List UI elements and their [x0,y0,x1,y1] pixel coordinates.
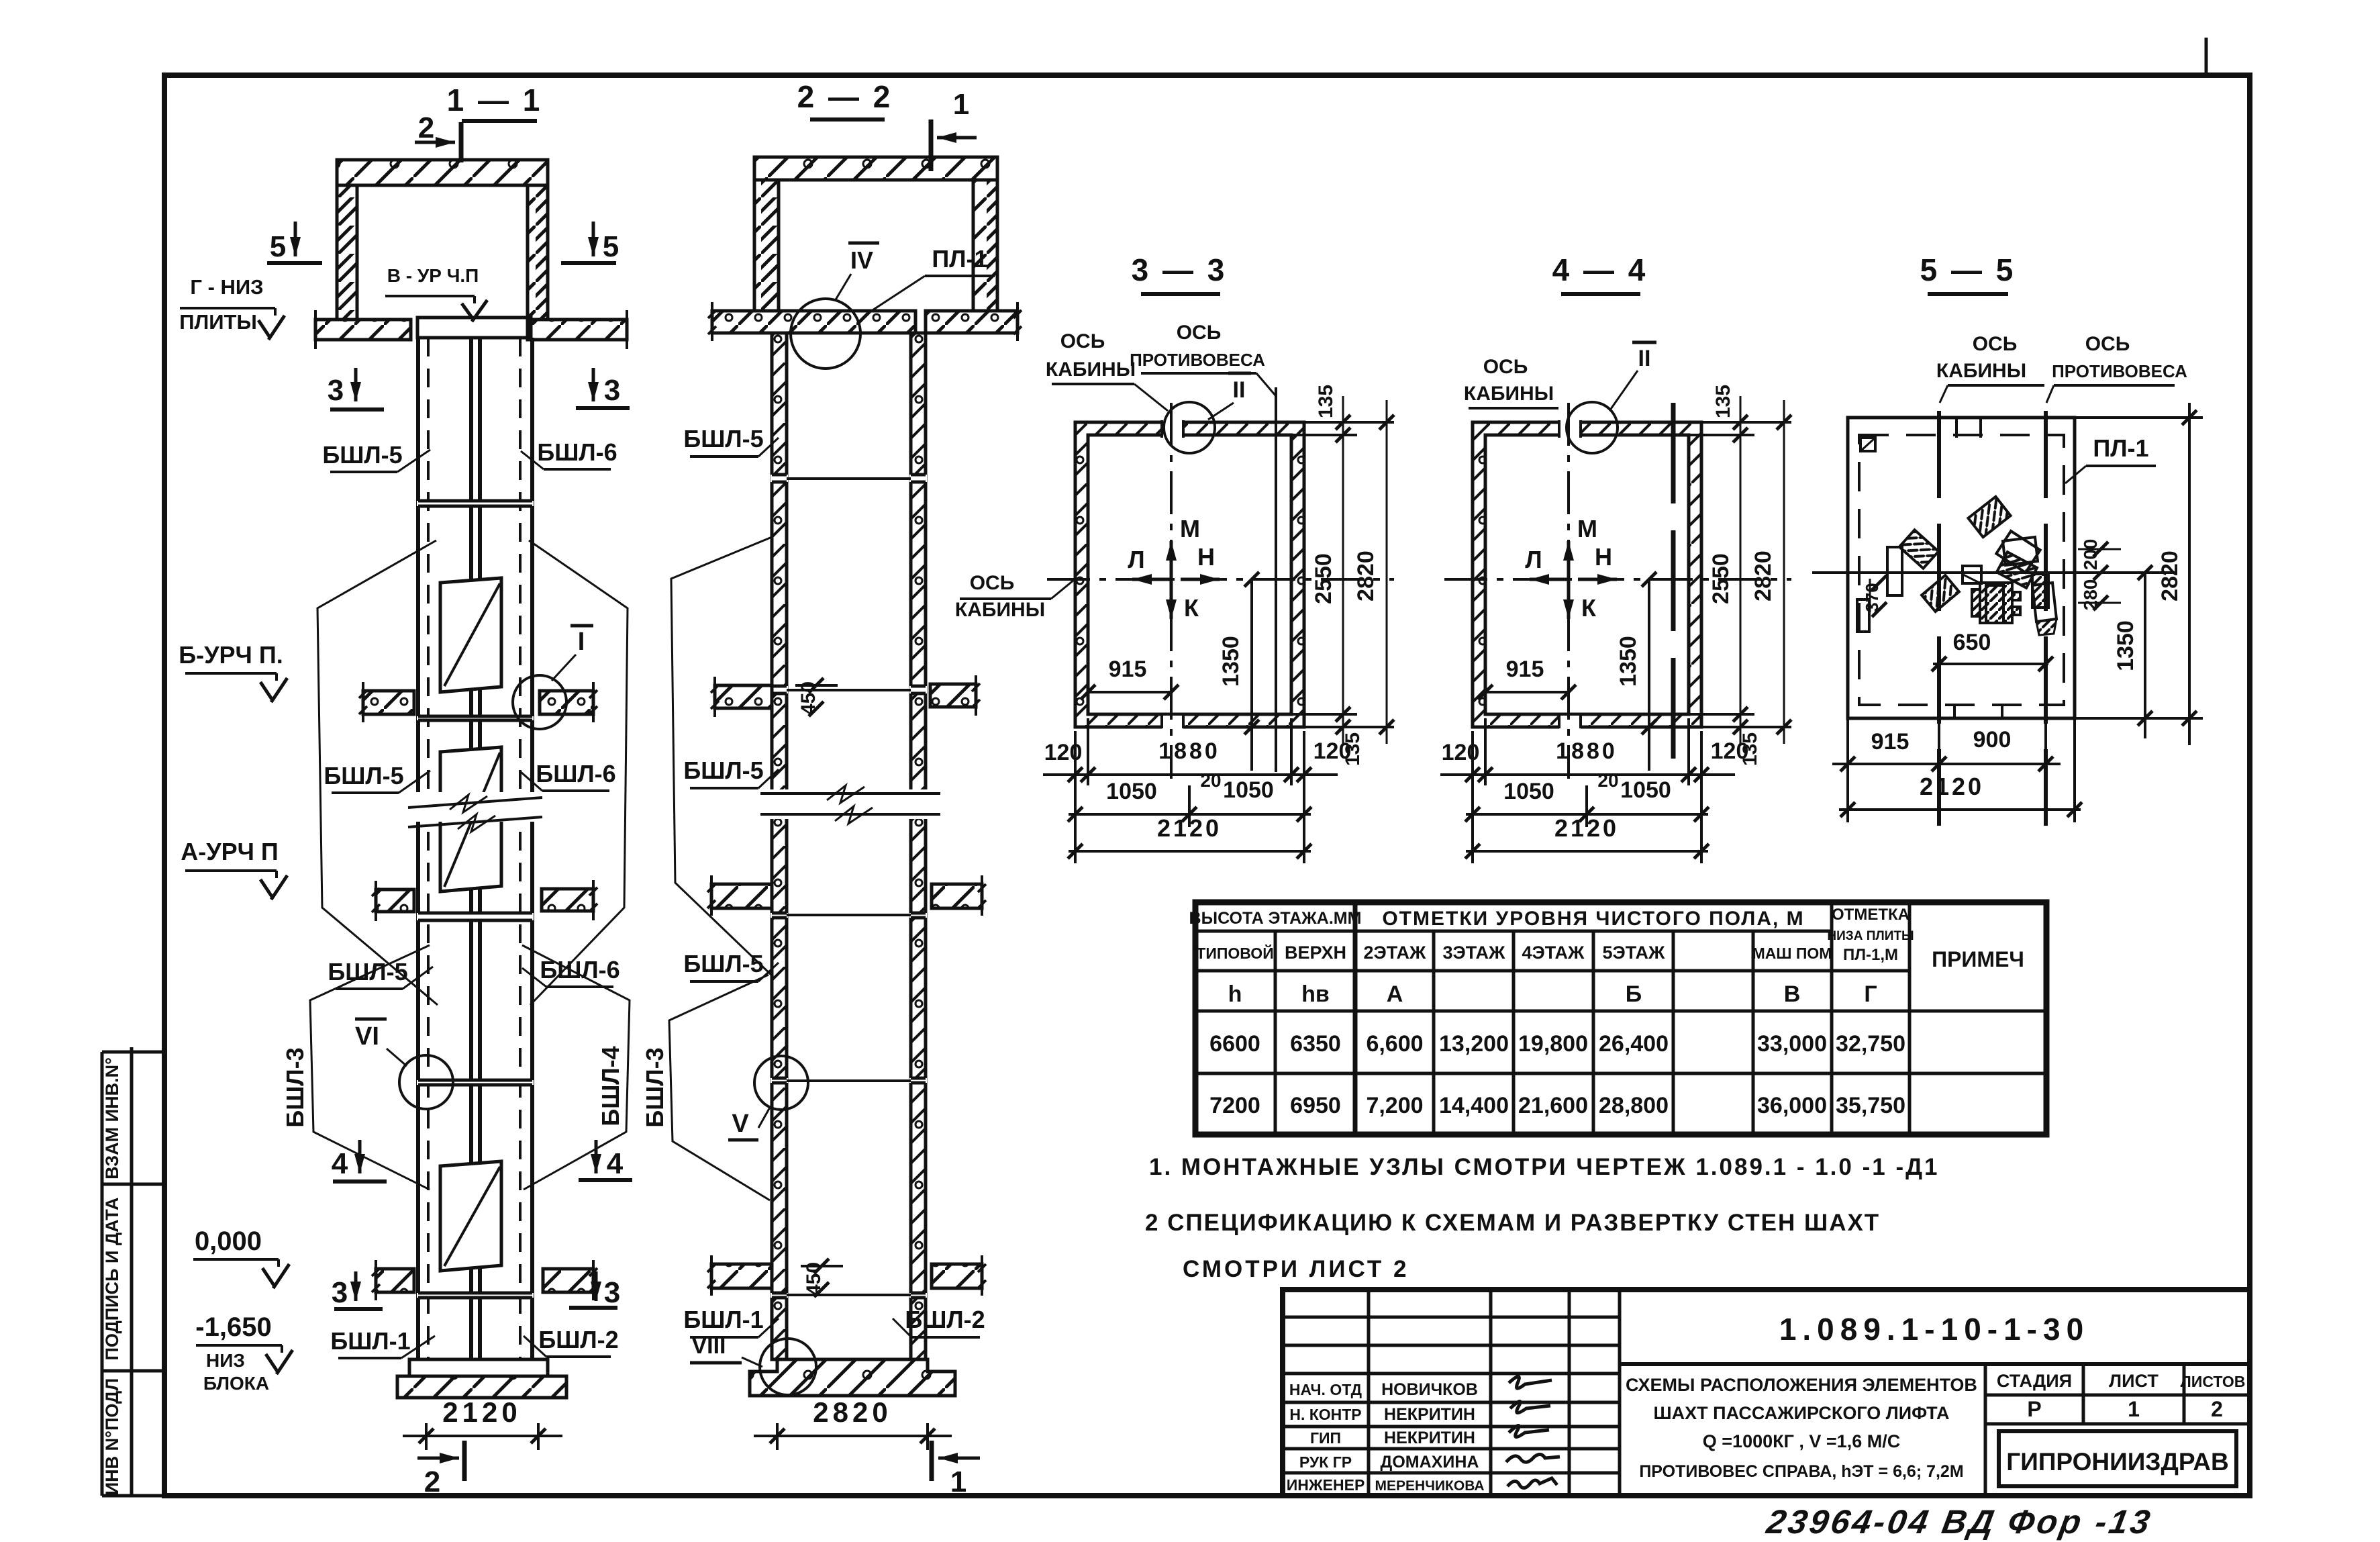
svg-text:ШАХТ ПАССАЖИРСКОГО ЛИФТА: ШАХТ ПАССАЖИРСКОГО ЛИФТА [1654,1403,1950,1423]
section 5-5 corner stop [1861,438,1875,451]
machine room floor plate PL-1 [417,318,531,338]
shaft 1-1 dashed block lines [427,338,430,1359]
svg-text:ВЕРХН: ВЕРХН [1285,943,1346,963]
section 3-3 horizontal axis [1047,578,1394,581]
section 3-3 axis arrows M L N K [1170,541,1173,579]
svg-text:2: 2 [2211,1397,2223,1421]
svg-text:1050: 1050 [1223,777,1274,803]
svg-text:ВЫСОТА ЭТАЖА.ММ: ВЫСОТА ЭТАЖА.ММ [1189,909,1362,928]
section 4-4 bottom joint gap [1559,716,1581,732]
section 5-5 dashed shaft outline PL-1 [1859,435,2064,705]
svg-text:Р: Р [2027,1397,2041,1421]
svg-text:БШЛ-5: БШЛ-5 [328,958,407,985]
svg-text:-1,650: -1,650 [195,1312,271,1342]
registration tick above frame [2205,38,2208,75]
section 3-3 right dims [1304,421,1394,424]
svg-text:М: М [1180,515,1200,542]
svg-text:2820: 2820 [813,1396,891,1428]
svg-text:21,600: 21,600 [1518,1093,1588,1118]
svg-text:1050: 1050 [1503,779,1554,804]
svg-text:915: 915 [1506,657,1544,682]
machine room 1-1 left wall [337,185,357,320]
svg-text:ОТМЕТКИ УРОВНЯ ЧИСТОГО ПОЛА, М: ОТМЕТКИ УРОВНЯ ЧИСТОГО ПОЛА, М [1382,908,1804,930]
svg-text:135: 135 [1315,385,1337,418]
section marker 4 right [595,1140,598,1173]
svg-text:ОСЬ: ОСЬ [1973,333,2018,355]
svg-text:СТАДИЯ: СТАДИЯ [1997,1371,2072,1391]
floor slabs 2-2 mid level [711,884,772,908]
svg-text:ЛИСТ: ЛИСТ [2109,1371,2159,1391]
svg-text:35,750: 35,750 [1836,1093,1905,1118]
svg-text:БШЛ-5: БШЛ-5 [324,762,403,789]
svg-text:2120: 2120 [1554,814,1619,842]
floor slabs 2-2 upper level [715,685,772,708]
svg-text:БШЛ-5: БШЛ-5 [683,757,763,784]
extent bracket upper left [317,540,438,1005]
svg-text:НЕКРИТИН: НЕКРИТИН [1384,1405,1475,1424]
svg-text:КАБИНЫ: КАБИНЫ [1464,383,1554,405]
door opening D2 [440,747,501,892]
svg-text:ПЛ-1: ПЛ-1 [2093,434,2148,462]
svg-text:915: 915 [1871,729,1910,755]
svg-text:СХЕМЫ РАСПОЛОЖЕНИЯ ЭЛЕМЕНТОВ: СХЕМЫ РАСПОЛОЖЕНИЯ ЭЛЕМЕНТОВ [1626,1375,1977,1395]
detail circle VI [399,1055,453,1109]
svg-text:Г: Г [1864,981,1877,1007]
svg-text:120: 120 [1313,738,1352,764]
floor slabs level B [363,691,414,714]
svg-text:ГИПРОНИИЗДРАВ: ГИПРОНИИЗДРАВ [2006,1448,2228,1476]
svg-text:К: К [1581,594,1597,622]
svg-text:ПЛИТЫ: ПЛИТЫ [179,310,257,334]
svg-text:II: II [1638,346,1651,371]
svg-text:НОВИЧКОВ: НОВИЧКОВ [1381,1380,1478,1399]
shaft 2-2 break [760,789,938,819]
svg-text:БШЛ-5: БШЛ-5 [683,425,763,452]
svg-text:2120: 2120 [1920,773,1984,800]
machine room 2-2 floor slab right part [926,311,1018,333]
svg-text:БШЛ-5: БШЛ-5 [683,950,763,977]
svg-text:1880: 1880 [1556,738,1618,764]
detail circle V [754,1056,808,1110]
svg-text:В: В [1784,981,1801,1007]
svg-text:IV: IV [850,246,873,274]
section 5-5 equipment motor [1972,583,2020,623]
svg-text:РУК ГР: РУК ГР [1299,1453,1352,1471]
svg-text:ОСЬ: ОСЬ [1483,356,1528,378]
svg-text:Н: Н [1595,543,1612,571]
detail circle VIII [760,1339,816,1395]
machine room 1-1 right wall [528,185,548,320]
svg-text:Л: Л [1525,546,1542,573]
svg-text:ПЛ-1: ПЛ-1 [932,245,987,273]
interior storey lines 2-2 [787,477,911,480]
machine room 1-1 top slab [337,160,548,185]
base plates of shaft 1-1 [409,1359,548,1376]
left margin strip boxes [101,1052,104,1496]
svg-text:НАЧ. ОТД: НАЧ. ОТД [1289,1381,1362,1398]
svg-text:4ЭТАЖ: 4ЭТАЖ [1522,943,1585,963]
section 4-4 walls [1473,422,1701,727]
section 4-4 horizontal axis [1444,578,1791,581]
svg-text:5: 5 [270,230,286,263]
section marker 3 right [592,368,595,401]
svg-text:В - УР Ч.П: В - УР Ч.П [387,265,479,286]
section 5-5 bottom notch [1953,704,1956,718]
svg-text:II: II [1233,377,1246,403]
svg-text:20: 20 [1597,770,1618,791]
section marker 1 bottom [930,1441,934,1481]
svg-text:КАБИНЫ: КАБИНЫ [1046,358,1136,381]
svg-text:7200: 7200 [1209,1093,1260,1118]
svg-text:МАШ ПОМ: МАШ ПОМ [1752,945,1832,962]
svg-text:БШЛ-6: БШЛ-6 [537,438,617,466]
svg-text:6,600: 6,600 [1366,1031,1423,1057]
svg-text:ГИП: ГИП [1310,1429,1341,1447]
svg-text:ИНЖЕНЕР: ИНЖЕНЕР [1287,1476,1365,1494]
svg-text:14,400: 14,400 [1439,1093,1509,1118]
svg-text:3: 3 [604,1276,620,1309]
svg-text:1050: 1050 [1620,777,1671,803]
shaft 2-2 storey joints [771,475,788,482]
svg-text:ПРОТИВОВЕСА: ПРОТИВОВЕСА [1130,350,1265,370]
machine room 2-2 floor slab left part [712,311,915,333]
shaft 1-1 right column wall lines [478,338,482,1359]
svg-text:26,400: 26,400 [1599,1031,1669,1057]
svg-text:120: 120 [1044,740,1083,765]
section 3-3 detail circle II [1164,402,1215,453]
section 4-4 dim 915 [1485,691,1569,693]
floor slabs 2-2 low level [711,1264,772,1288]
svg-text:4: 4 [332,1147,348,1180]
svg-text:900: 900 [1973,727,2012,753]
svg-text:7,200: 7,200 [1366,1093,1423,1118]
title block signatures scribbles [1506,1376,1560,1488]
extent bracket upper right [529,540,628,1005]
section marker 3 bottom right [595,1271,598,1301]
shaft 2-2 left wall [772,333,787,1359]
door opening D3 [440,1161,501,1271]
svg-text:ОСЬ: ОСЬ [1177,322,1222,344]
section 5-5 bottom dims [1846,718,1849,822]
section 5-5 equipment blocks [1968,497,2010,537]
section 5-5 machine room plan outline [1848,418,2075,718]
title block signature rows [1283,1316,1620,1319]
section 5-5 horizontal axis [1812,571,2175,574]
svg-text:КАБИНЫ: КАБИНЫ [955,599,1045,621]
svg-text:V: V [732,1110,749,1138]
shaft 1-1 break [407,792,544,822]
svg-text:VI: VI [355,1022,379,1051]
section 4-4 axis arrows M L N K [1567,541,1571,579]
svg-text:h: h [1228,981,1242,1007]
svg-text:120: 120 [1442,740,1480,765]
svg-text:Q =1000КГ , V =1,6 М/С: Q =1000КГ , V =1,6 М/С [1703,1431,1900,1451]
svg-text:БШЛ-3: БШЛ-3 [281,1047,309,1127]
svg-text:КАБИНЫ: КАБИНЫ [1936,360,2026,382]
svg-text:ТИПОВОЙ: ТИПОВОЙ [1196,944,1273,962]
section 5-5 cabin axis [1937,411,1941,826]
detail circle IV [791,299,860,369]
dimension 2820 view 2-2 [776,1423,779,1450]
svg-text:1: 1 [953,88,969,121]
shaft 1-1 left column wall lines [416,338,420,1359]
svg-text:ОТМЕТКА: ОТМЕТКА [1832,906,1910,924]
svg-text:2: 2 [418,111,434,144]
machine room floor left slab [315,320,411,340]
svg-text:3 — 3: 3 — 3 [1132,252,1228,287]
title block outer [1283,1290,2250,1496]
svg-text:28,800: 28,800 [1599,1093,1669,1118]
svg-text:1050: 1050 [1106,779,1157,804]
extent bracket lower left with BShL-3 [310,945,430,1190]
section 4-4 dim 1350 [1648,579,1650,771]
svg-text:1350: 1350 [2113,620,2138,671]
svg-text:НИЗА ПЛИТЫ: НИЗА ПЛИТЫ [1827,929,1914,943]
svg-text:0,000: 0,000 [195,1226,262,1256]
svg-text:5 — 5: 5 — 5 [1920,252,2016,287]
section 4-4 detail circle II [1567,402,1618,453]
machine room 2-2 left wall [754,180,779,311]
section 3-3 bottom dims [1054,727,1075,866]
svg-text:hв: hв [1301,981,1330,1007]
section 3-3 walls [1075,422,1304,727]
machine room floor right slab [528,320,627,340]
svg-text:3ЭТАЖ: 3ЭТАЖ [1443,943,1506,963]
svg-text:32,750: 32,750 [1836,1031,1905,1057]
svg-text:6950: 6950 [1290,1093,1341,1118]
svg-text:4 — 4: 4 — 4 [1552,252,1648,287]
svg-text:Б: Б [1626,981,1642,1007]
svg-text:19,800: 19,800 [1518,1031,1588,1057]
section 5-5 dim 650 [1933,663,2048,665]
svg-text:5: 5 [603,230,619,263]
machine room 2-2 top slab [754,157,997,180]
foundation slab 1-1 [397,1376,566,1398]
svg-text:НЕКРИТИН: НЕКРИТИН [1384,1429,1475,1447]
svg-text:М: М [1577,515,1597,542]
svg-text:915: 915 [1109,657,1147,682]
section 5-5 counterweight axis [2044,411,2048,826]
svg-text:650: 650 [1953,630,1991,655]
svg-text:ПРОТИВОВЕСА: ПРОТИВОВЕСА [2052,361,2187,381]
svg-text:БШЛ-1: БШЛ-1 [683,1306,763,1333]
section 4-4 top joint gap [1559,420,1581,438]
svg-text:БШЛ-4: БШЛ-4 [597,1046,624,1126]
svg-text:2550: 2550 [1311,553,1336,604]
svg-text:СМОТРИ ЛИСТ 2: СМОТРИ ЛИСТ 2 [1183,1256,1409,1282]
section 4-4 counterweight axis [1671,403,1676,779]
svg-text:ЛИСТОВ: ЛИСТОВ [2181,1373,2246,1390]
svg-text:БШЛ-5: БШЛ-5 [322,441,402,469]
svg-text:6350: 6350 [1290,1031,1341,1057]
title block signature columns [1367,1290,1371,1496]
floor slabs level 0 [376,1269,414,1292]
svg-text:1: 1 [950,1465,966,1498]
extent bracket 2-2 left lower with BShL-3 [669,975,770,1200]
svg-text:Г - НИЗ: Г - НИЗ [190,275,263,299]
svg-text:ОСЬ: ОСЬ [1060,330,1105,352]
svg-text:13,200: 13,200 [1439,1031,1509,1057]
svg-text:4: 4 [607,1147,624,1180]
shaft 1-1 storey joints [417,501,534,506]
svg-text:БШЛ-1: БШЛ-1 [330,1327,410,1355]
svg-text:2120: 2120 [442,1396,521,1428]
svg-text:ПОДПИСЬ И ДАТА: ПОДПИСЬ И ДАТА [102,1197,122,1360]
svg-text:БШЛ-2: БШЛ-2 [905,1306,985,1333]
svg-text:6600: 6600 [1209,1031,1260,1057]
svg-text:36,000: 36,000 [1757,1093,1827,1118]
section marker 5 right [592,222,595,256]
svg-text:ДОМАХИНА: ДОМАХИНА [1381,1453,1479,1472]
svg-text:1350: 1350 [1616,636,1641,687]
svg-text:БШЛ-3: БШЛ-3 [641,1047,668,1127]
svg-text:НИЗ: НИЗ [206,1350,245,1371]
svg-text:2820: 2820 [1353,550,1379,601]
svg-text:БШЛ-2: БШЛ-2 [538,1326,618,1353]
svg-text:1 — 1: 1 — 1 [447,83,543,117]
storey levels table [1195,902,2046,1135]
section 3-3 dim 915 [1088,691,1171,693]
section marker 2 bottom [462,1441,467,1481]
svg-text:120: 120 [1711,738,1749,764]
svg-text:А: А [1387,981,1403,1007]
section 5-5 top notch [1955,418,1958,438]
detail circle I [513,675,566,729]
svg-text:БЛОКА: БЛОКА [203,1373,269,1394]
svg-text:2120: 2120 [1157,814,1222,842]
svg-text:2 — 2: 2 — 2 [797,79,893,114]
dimension 2120 view 1-1 [425,1423,428,1450]
svg-text:А-УРЧ П: А-УРЧ П [181,838,279,865]
door opening D1 [440,578,501,692]
extent bracket lower right with BShL-4 [522,945,630,1190]
machine room 2-2 right wall [973,180,997,311]
section 3-3 cabin axis [1170,403,1173,779]
svg-text:1350: 1350 [1218,636,1244,687]
svg-text:23964-04 ВД Фор -13: 23964-04 ВД Фор -13 [1763,1502,2155,1541]
floor slabs level A [376,889,414,912]
svg-text:2ЭТАЖ: 2ЭТАЖ [1364,943,1427,963]
svg-text:3: 3 [604,374,620,407]
svg-text:2550: 2550 [1708,553,1734,604]
shaft 2-2 right wall [911,333,926,1359]
svg-text:1. МОНТАЖНЫЕ УЗЛЫ СМОТРИ: 1. МОНТАЖНЫЕ УЗЛЫ СМОТРИ ЧЕРТЕЖ 1.089.1 … [1149,1154,1940,1180]
section 5-5 dim 2820 [2188,403,2191,745]
svg-text:Л: Л [1128,546,1144,573]
section 3-3 dim 1350 [1250,579,1253,771]
svg-text:ОСЬ: ОСЬ [2085,333,2130,355]
svg-text:ВЗАМ ИНВ.N°: ВЗАМ ИНВ.N° [102,1057,122,1179]
svg-text:Б-УРЧ П.: Б-УРЧ П. [179,641,283,669]
svg-text:3: 3 [332,1276,348,1309]
svg-text:2820: 2820 [2157,550,2183,601]
svg-text:ПРОТИВОВЕС СПРАВА, hЭТ = 6,6;: ПРОТИВОВЕС СПРАВА, hЭТ = 6,6; 7,2М [1639,1462,1963,1481]
section 3-3 counterweight axis [1275,387,1277,772]
svg-text:ИНВ N°ПОДЛ: ИНВ N°ПОДЛ [102,1378,122,1495]
title block GIPRONIIZDRAV [1999,1431,2236,1486]
svg-text:1880: 1880 [1158,738,1220,764]
svg-text:2: 2 [424,1465,440,1498]
section 4-4 bottom dims [1451,727,1473,866]
svg-text:ПРИМЕЧ: ПРИМЕЧ [1932,947,2024,971]
svg-text:20: 20 [1200,770,1221,791]
section 3-3 top joint gap [1162,420,1183,438]
section 4-4 right dims [1701,421,1791,424]
svg-text:33,000: 33,000 [1757,1031,1827,1057]
svg-text:5ЭТАЖ: 5ЭТАЖ [1603,943,1666,963]
svg-text:1.089.1-10-1-30: 1.089.1-10-1-30 [1779,1312,2089,1347]
svg-text:135: 135 [1712,385,1734,418]
svg-text:1: 1 [2128,1397,2140,1421]
svg-text:Н. КОНТР: Н. КОНТР [1289,1406,1361,1423]
extent bracket 2-2 left upper [671,537,773,977]
section 5-5 dim 1350 [2144,573,2146,738]
svg-text:ПЛ-1,М: ПЛ-1,М [1843,946,1898,964]
svg-text:Н: Н [1197,543,1215,571]
svg-text:К: К [1184,594,1199,622]
svg-text:ОСЬ: ОСЬ [970,572,1015,594]
svg-text:3: 3 [328,374,344,407]
section 3-3 bottom joint gap [1162,716,1183,732]
svg-text:БШЛ-6: БШЛ-6 [536,760,615,787]
foundation 2-2 [750,1359,955,1396]
section 4-4 cabin axis [1567,403,1570,779]
svg-text:I: I [578,628,585,656]
title block stadia list listov [1985,1394,2250,1397]
svg-text:VIII: VIII [691,1333,726,1359]
svg-text:МЕРЕНЧИКОВА: МЕРЕНЧИКОВА [1375,1478,1485,1494]
svg-text:2 СПЕЦИФИКАЦИЮ К СХЕМАМ И: 2 СПЕЦИФИКАЦИЮ К СХЕМАМ И РАЗВЕРТКУ СТЕН… [1145,1210,1880,1236]
svg-text:2820: 2820 [1750,550,1776,601]
